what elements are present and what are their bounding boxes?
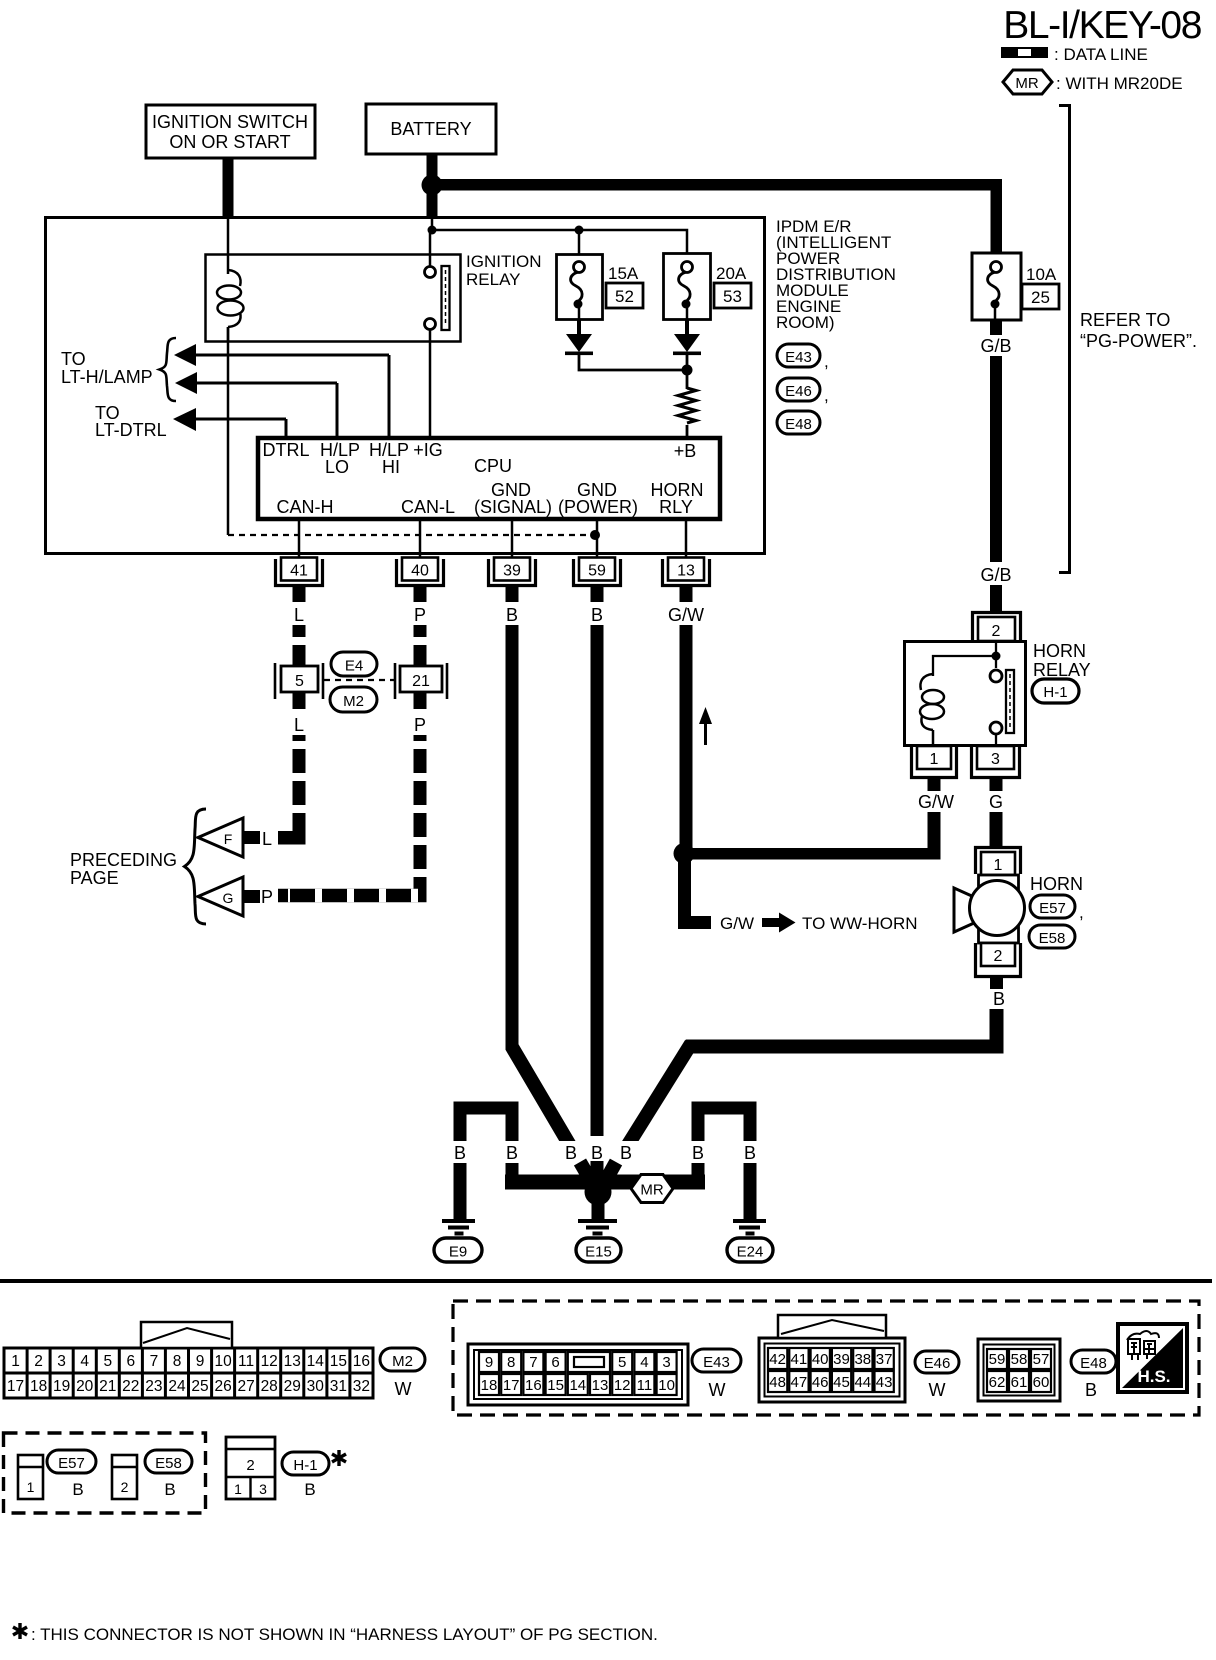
label E46 oval bottom [915,1351,959,1400]
svg-text:18: 18 [481,1377,498,1394]
svg-text:48: 48 [769,1374,786,1391]
legend MR hexagon [1003,70,1052,94]
svg-text:P: P [261,887,273,907]
svg-text:(POWER): (POWER) [558,497,638,517]
wire stub pin3 + label G [990,779,1003,791]
node G/W junction [674,843,695,864]
svg-text:3: 3 [991,751,1000,768]
pin 3 horn relay [972,746,1020,778]
svg-text:40: 40 [411,563,429,580]
wire diodes join [579,355,687,370]
svg-text:PRECEDING: PRECEDING [70,850,177,870]
connector label E48 [777,411,820,434]
svg-text:L: L [262,829,272,849]
svg-text:16: 16 [525,1377,542,1394]
wire ignition switch to IPDM (thick) [223,158,234,218]
wire HORN RLY to pin 13 [685,521,688,558]
svg-text:12: 12 [614,1377,631,1394]
horn relay coil [920,674,944,746]
wire CAN-H data line striped [293,625,306,666]
svg-text:12: 12 [261,1353,278,1370]
svg-text:B: B [692,1143,704,1163]
label E48 oval bottom [1071,1350,1116,1400]
svg-text:B: B [565,1143,577,1163]
svg-text:H-1: H-1 [293,1457,317,1474]
svg-text:13: 13 [284,1353,301,1370]
svg-text:CAN-L: CAN-L [401,497,455,517]
svg-text:52: 52 [615,287,634,306]
HS logo [1118,1324,1187,1392]
svg-text:14: 14 [307,1353,325,1370]
label E4 oval [331,652,377,676]
label E9 oval [434,1238,482,1262]
connector label E43 [777,344,829,371]
wire battery tap to fuses (thin) [431,218,434,230]
svg-text:9: 9 [485,1354,493,1371]
arrow up current direction [699,707,712,745]
svg-text:1: 1 [994,857,1003,874]
svg-text:G/W: G/W [918,792,954,812]
svg-text:HORN: HORN [1033,641,1086,661]
svg-text:59: 59 [989,1351,1006,1368]
diode D2 under 20A [673,319,701,355]
svg-text:E48: E48 [1080,1355,1107,1372]
pin 2 horn relay [973,613,1021,642]
svg-text:E57: E57 [1039,900,1066,917]
svg-text:LO: LO [325,457,349,477]
horn relay contact [990,670,1014,746]
svg-text:CPU: CPU [474,456,512,476]
svg-text:27: 27 [237,1378,254,1395]
svg-text:1: 1 [27,1479,35,1495]
pin 39 [489,558,536,586]
svg-text:ROOM): ROOM) [776,313,835,332]
connector 5 E4/M2 [275,663,323,699]
svg-text:4: 4 [80,1353,89,1370]
wire stub pin 13 + label G/W [680,587,693,602]
svg-text:LT-DTRL: LT-DTRL [95,420,167,440]
svg-text:14: 14 [569,1377,586,1394]
connector M2 grid [4,1322,373,1398]
footnote asterisk [13,1623,27,1639]
wire dashed connector join 5-21 [324,679,398,681]
pin 13 [663,558,710,586]
svg-text:18: 18 [30,1378,47,1395]
svg-text:60: 60 [1033,1374,1050,1391]
legend data line symbol [1001,47,1048,58]
svg-text:P: P [414,715,426,735]
svg-text:W: W [929,1380,946,1400]
wire pin 59 to ground junction [591,1161,604,1189]
svg-text:B: B [993,989,1005,1009]
relay contact [425,266,450,330]
label M2 oval [330,687,377,712]
text IPDM E/R block [776,217,896,332]
wire junction down to WW-HORN stub [685,860,712,923]
node coil ground junction [590,530,600,540]
svg-text:29: 29 [284,1378,301,1395]
label E58 oval [145,1450,192,1499]
horn relay internal wiring [995,641,997,668]
svg-text:TO: TO [61,349,86,369]
arrow block to WW-HORN [762,913,796,933]
svg-text:,: , [1079,903,1084,922]
wire down to 10A fuse (thick) [991,179,1003,253]
svg-text:E46: E46 [785,383,812,400]
svg-text:28: 28 [261,1378,278,1395]
svg-text:E24: E24 [737,1244,764,1261]
svg-text:43: 43 [876,1374,893,1391]
node battery tap [428,226,437,235]
brace LT-H/LAMP [160,338,177,401]
wire relay coil to ground dashed [227,327,230,535]
svg-text:B: B [164,1480,175,1499]
wire junction to E15 ground [592,1200,605,1219]
svg-text:BL-I/KEY-08: BL-I/KEY-08 [1003,4,1201,47]
connector E57 [18,1455,43,1499]
svg-text:53: 53 [723,287,742,306]
svg-text:B: B [620,1143,632,1163]
wire GND POWER to pin 59 [596,521,599,558]
pin 40 [397,558,444,586]
svg-text:46: 46 [812,1374,829,1391]
connector E48 grid [978,1339,1060,1401]
ground symbol E9 [442,1219,475,1236]
svg-text:HI: HI [382,457,400,477]
svg-text:6: 6 [551,1354,559,1371]
svg-text:62: 62 [989,1374,1006,1391]
connector 21 [395,663,447,699]
wire G/B fuse to horn relay [990,320,1002,335]
svg-text:2: 2 [992,623,1001,640]
svg-text:M2: M2 [392,1353,413,1370]
svg-text:3: 3 [259,1481,267,1497]
connector H-1 [226,1437,275,1499]
node fuse 15A tap [575,226,584,235]
svg-text:RLY: RLY [659,497,693,517]
svg-text:2: 2 [994,948,1003,965]
svg-text:B: B [1085,1380,1097,1400]
arrow F to preceding page [198,818,260,857]
wire stub pin 41 + label L [293,587,306,602]
svg-text:15: 15 [330,1353,347,1370]
svg-text:15: 15 [547,1377,564,1394]
svg-text:17: 17 [7,1378,24,1395]
svg-text:57: 57 [1033,1351,1050,1368]
svg-text:W: W [709,1380,726,1400]
svg-text:11: 11 [637,1377,653,1394]
svg-text:1: 1 [234,1481,242,1497]
svg-text:B: B [744,1143,756,1163]
svg-text:DTRL: DTRL [262,440,309,460]
svg-text:32: 32 [353,1378,370,1395]
pin 2 horn [976,943,1021,977]
separator line [0,1279,1212,1283]
svg-text:16: 16 [353,1353,370,1370]
wire diagonal pin39 to ground junction [506,1035,576,1141]
wire G relay pin3 to horn [990,812,1003,848]
wire junction to horn relay (thick) [684,848,941,860]
svg-text:MR: MR [640,1182,663,1199]
connector E43 grid [468,1344,688,1405]
svg-text:21: 21 [412,673,430,690]
svg-text:,: , [824,352,829,371]
svg-text:G: G [989,792,1003,812]
horn body [954,875,1025,943]
ignition switch box [146,105,315,158]
svg-text:8: 8 [173,1353,182,1370]
wire battery tap to relay contact [429,230,432,267]
svg-text:1: 1 [11,1353,20,1370]
wire ground bus right arm (thick) [598,1175,705,1190]
label M2 oval bottom [380,1348,425,1399]
svg-text:25: 25 [1031,288,1050,307]
label E57 oval [47,1450,96,1499]
fuse 20A 53 [664,254,752,320]
svg-text:MR: MR [1015,75,1038,92]
svg-text:HORN: HORN [1030,874,1083,894]
wire stub pin 59 + label B [591,587,604,602]
wire P below connector 21 striped + label [414,692,427,709]
svg-text:21: 21 [99,1378,116,1395]
svg-text:B: B [454,1143,466,1163]
svg-text:10: 10 [658,1377,675,1394]
node ground junction [585,1179,612,1206]
svg-text:CAN-H: CAN-H [277,497,334,517]
battery box [366,104,496,154]
svg-text:RELAY: RELAY [1033,660,1091,680]
svg-text:W: W [395,1379,412,1399]
svg-text:H-1: H-1 [1043,684,1067,701]
svg-text:E43: E43 [703,1354,730,1371]
svg-text:30: 30 [307,1378,325,1395]
svg-text:REFER TO: REFER TO [1080,310,1170,330]
asterisk after H-1 [332,1450,346,1466]
svg-text:E58: E58 [1039,930,1066,947]
svg-text:15A: 15A [608,264,639,283]
resistor R1 [678,370,696,436]
svg-text:61: 61 [1011,1374,1028,1391]
svg-text:39: 39 [833,1351,850,1368]
wire battery down (thick) [427,154,438,218]
wire CAN-L data line striped [414,625,427,666]
svg-text:17: 17 [503,1377,520,1394]
arrow TO LT-H/LAMP upper [174,344,389,436]
fuse 15A 52 [557,255,644,320]
svg-text:B: B [72,1480,83,1499]
wire pin 39 B down (thick) [506,625,519,1037]
label E57 oval [1030,895,1084,922]
wire stub pin 39 + label B [506,587,519,602]
connector E58 [112,1455,137,1499]
svg-text:39: 39 [503,563,521,580]
svg-text:42: 42 [769,1351,786,1368]
wire battery feed right (thick) [432,179,1002,191]
label E15 oval [576,1238,621,1262]
svg-text:L: L [294,605,304,625]
svg-text:P: P [414,605,426,625]
svg-text:6: 6 [126,1353,135,1370]
svg-text:E46: E46 [924,1355,951,1372]
ignition relay box [206,255,461,342]
label E43 oval bottom [692,1349,741,1400]
svg-text:5: 5 [103,1353,112,1370]
svg-text:25: 25 [191,1378,208,1395]
svg-text:: THIS CONNECTOR IS NOT SHOWN: : THIS CONNECTOR IS NOT SHOWN IN “HARNES… [31,1625,658,1644]
pin 59 [574,558,621,586]
wire to 15A fuse [578,230,581,262]
svg-text:E57: E57 [58,1455,85,1472]
svg-text:8: 8 [507,1354,515,1371]
svg-text:B: B [304,1480,315,1499]
arrow G to preceding page [198,877,260,916]
label H-1 oval [1032,679,1079,703]
svg-text:41: 41 [290,563,308,580]
svg-text:20A: 20A [716,264,747,283]
horn relay box [905,642,1026,746]
wire GND SIGNAL to pin 39 [511,521,514,558]
svg-text:G/W: G/W [720,914,754,933]
svg-text:58: 58 [1011,1351,1028,1368]
svg-text:G/B: G/B [980,565,1011,585]
svg-text:IGNITION: IGNITION [466,252,542,271]
svg-text:3: 3 [662,1354,670,1371]
svg-text:H.S.: H.S. [1137,1367,1170,1386]
svg-text:2: 2 [34,1353,43,1370]
svg-text:2: 2 [246,1457,254,1474]
text CPU box labels bottom row [277,480,704,517]
svg-text:10: 10 [214,1353,232,1370]
connector E46 grid [759,1315,905,1402]
svg-text:E15: E15 [585,1244,612,1261]
svg-text:41: 41 [791,1351,808,1368]
svg-text:F: F [224,831,233,847]
svg-text:13: 13 [677,563,695,580]
svg-text:10A: 10A [1026,265,1057,284]
svg-text:7: 7 [150,1353,159,1370]
pin 1 horn relay [912,746,957,778]
svg-text:45: 45 [833,1374,850,1391]
svg-text:4: 4 [640,1354,648,1371]
svg-text:B: B [506,605,518,625]
wire CAN-H to pin 41 [298,521,301,558]
diode D1 under 15A [565,319,593,355]
node diode junction [682,365,693,376]
svg-text:7: 7 [529,1354,537,1371]
svg-text:E58: E58 [155,1455,182,1472]
dashed box connectors E43 E46 E48 [453,1301,1199,1415]
fuse 10A 25 [972,253,1059,320]
IPDM E/R outer box [46,218,765,554]
wire G/W relay pin1 down [928,812,941,858]
wire CAN-L to pin 40 [419,521,422,558]
bracket refer to PG-POWER [1059,106,1070,573]
brace preceding page [185,809,207,924]
svg-text:31: 31 [330,1378,347,1395]
svg-text:5: 5 [295,673,304,690]
wire E24 staple [692,1102,757,1220]
ground symbol E24 [733,1219,766,1236]
svg-text:E9: E9 [449,1244,467,1261]
wire horn B down and left (thick) [686,1009,997,1047]
arrow TO LT-H/LAMP lower [175,372,337,436]
node battery junction [422,175,443,196]
ground symbol E15 [578,1219,617,1236]
svg-text:: DATA LINE: : DATA LINE [1054,45,1148,64]
svg-text:: WITH MR20DE: : WITH MR20DE [1056,74,1183,93]
pin 1 horn [976,848,1021,876]
svg-text:,: , [824,386,829,405]
svg-text:LT-H/LAMP: LT-H/LAMP [61,367,153,387]
svg-text:3: 3 [57,1353,66,1370]
svg-text:BATTERY: BATTERY [390,119,471,139]
hexagon MR on ground bus [631,1175,673,1203]
svg-text:11: 11 [238,1353,254,1370]
svg-text:26: 26 [214,1378,231,1395]
svg-text:IGNITION SWITCH: IGNITION SWITCH [152,112,308,132]
wire relay contact to +IG [429,330,432,436]
svg-text:37: 37 [876,1351,893,1368]
arrow TO LT-DTRL [173,408,286,436]
svg-text:40: 40 [812,1351,829,1368]
svg-text:M2: M2 [343,693,364,710]
svg-text:38: 38 [854,1351,871,1368]
svg-text:B: B [506,1143,518,1163]
svg-text:RELAY: RELAY [466,270,521,289]
svg-text:(SIGNAL): (SIGNAL) [474,497,552,517]
connector label E46 [777,378,829,405]
svg-text:L: L [294,715,304,735]
svg-text:24: 24 [168,1378,186,1395]
svg-text:13: 13 [592,1377,609,1394]
svg-text:59: 59 [588,563,606,580]
wire stub horn pin2 + label B [990,978,1003,989]
svg-text:47: 47 [791,1374,808,1391]
wire L below connector 5 striped + label [293,692,306,709]
svg-text:B: B [591,605,603,625]
CPU box [258,438,720,519]
wire pin 13 G/W down (thick) [680,625,693,854]
label E24 oval [727,1238,773,1262]
svg-text:22: 22 [122,1378,139,1395]
wire E9 staple [454,1102,519,1220]
wire ignition switch inside box (thin) [227,218,230,274]
wire stub pin 40 + label P [414,587,427,602]
dashed box E57 E58 [4,1433,206,1513]
svg-text:ON OR START: ON OR START [169,132,290,152]
svg-text:E43: E43 [785,349,812,366]
wire stub pin1 + label G/W [928,779,941,791]
svg-text:9: 9 [196,1353,205,1370]
wire ground bus left arm (thick) [505,1175,605,1190]
label H-1 oval [282,1452,329,1499]
svg-text:“PG-POWER”.: “PG-POWER”. [1080,331,1197,351]
svg-text:+IG: +IG [413,440,443,460]
svg-text:B: B [591,1143,603,1163]
svg-text:5: 5 [618,1354,626,1371]
svg-text:1: 1 [930,751,939,768]
svg-text:44: 44 [854,1374,871,1391]
svg-text:G/W: G/W [668,605,704,625]
svg-text:E48: E48 [785,416,812,433]
text CPU box labels top row [262,440,696,477]
svg-text:20: 20 [76,1378,94,1395]
label E58 oval [1029,925,1075,948]
wire diagonal horn B to ground junction [622,1040,693,1142]
svg-text:G/B: G/B [980,336,1011,356]
wire pin 59 B down (thick) [591,625,604,1136]
svg-text:TO WW-HORN: TO WW-HORN [802,914,918,933]
